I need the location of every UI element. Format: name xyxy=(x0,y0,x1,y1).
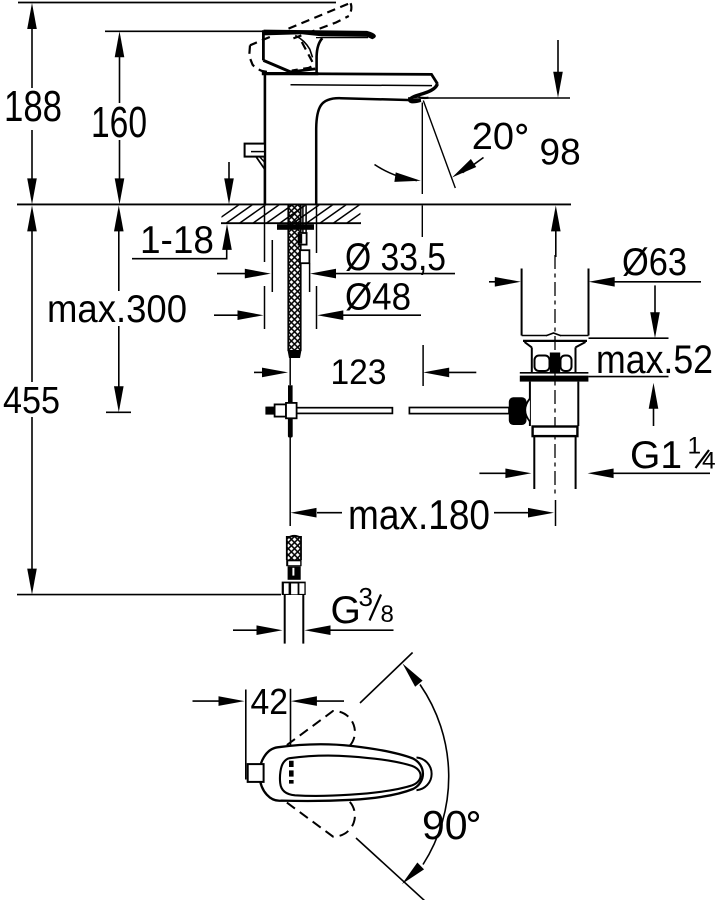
svg-text:98: 98 xyxy=(540,132,581,173)
svg-text:90: 90 xyxy=(422,802,468,848)
svg-text:1: 1 xyxy=(688,433,702,460)
svg-text:160: 160 xyxy=(91,98,147,147)
svg-text:20: 20 xyxy=(472,116,514,158)
svg-text:3: 3 xyxy=(359,582,373,612)
svg-text:123: 123 xyxy=(331,353,387,392)
svg-text:455: 455 xyxy=(3,380,60,422)
svg-text:max.300: max.300 xyxy=(47,288,187,331)
svg-text:max.52: max.52 xyxy=(596,338,713,382)
svg-text:max.180: max.180 xyxy=(348,491,490,538)
svg-text:Ø63: Ø63 xyxy=(622,241,687,284)
svg-text:1-18: 1-18 xyxy=(140,219,214,262)
svg-text:G1: G1 xyxy=(630,434,682,477)
svg-text:Ø 33,5: Ø 33,5 xyxy=(345,236,446,279)
svg-text:4: 4 xyxy=(702,448,716,475)
svg-text:188: 188 xyxy=(4,82,62,131)
svg-text:G: G xyxy=(331,589,361,632)
svg-text:Ø48: Ø48 xyxy=(345,277,411,319)
svg-text:8: 8 xyxy=(381,601,394,628)
svg-text:42: 42 xyxy=(251,681,289,722)
